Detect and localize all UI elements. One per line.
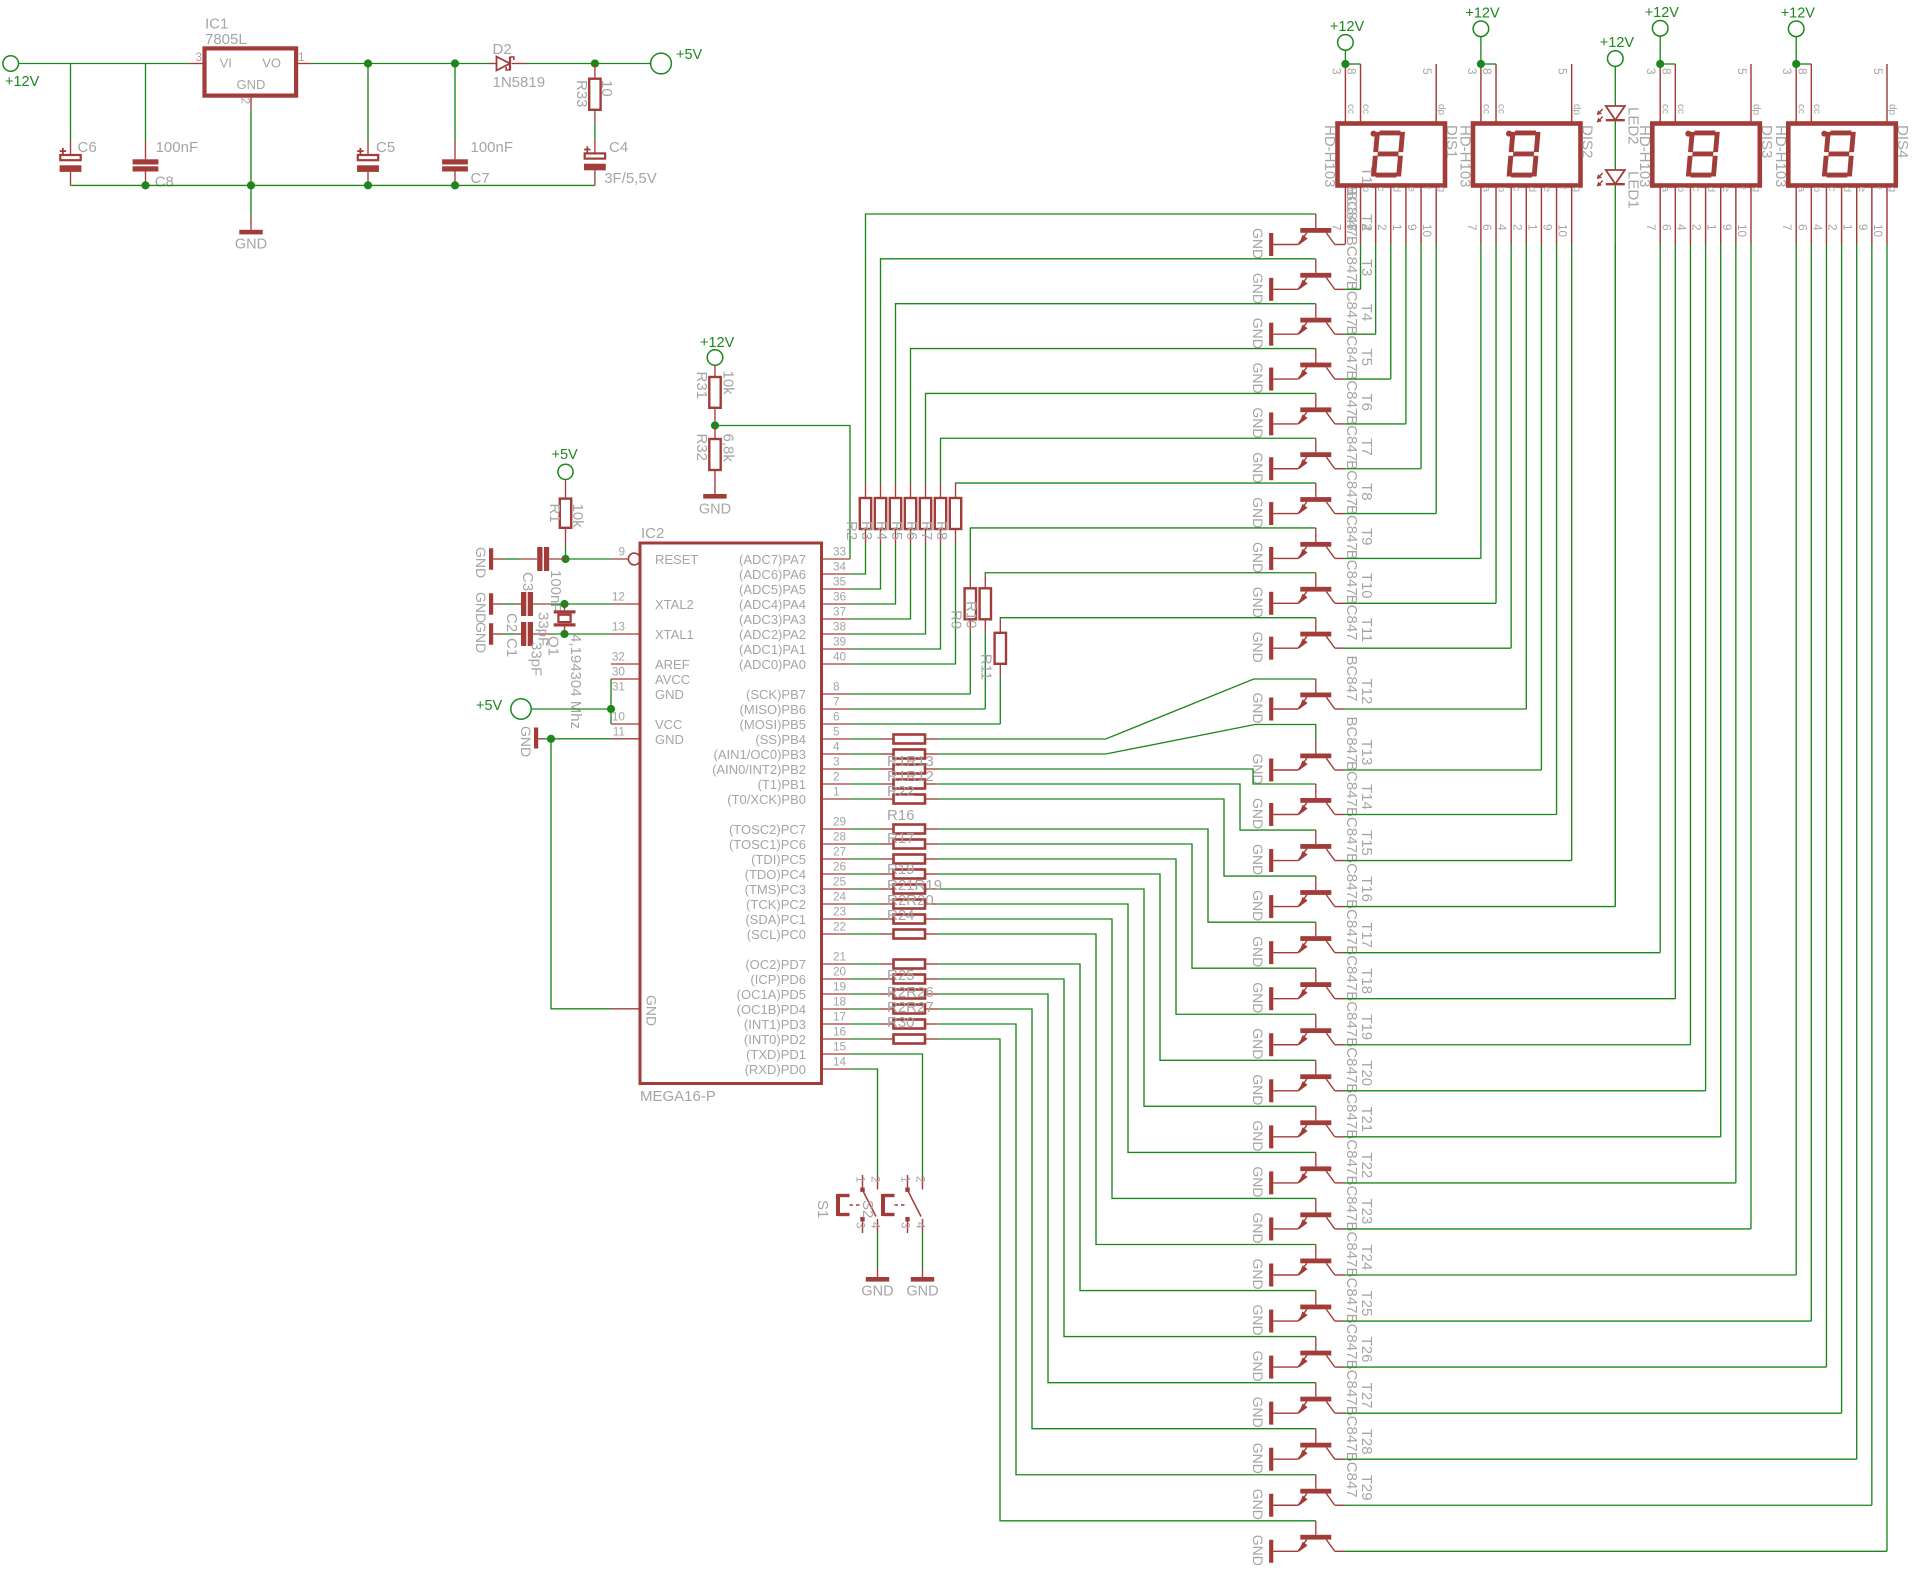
svg-text:1N5819: 1N5819 <box>493 74 546 91</box>
svg-text:GND: GND <box>906 1284 938 1300</box>
svg-text:T5: T5 <box>1358 349 1375 367</box>
svg-text:4: 4 <box>1495 224 1509 231</box>
svg-text:3: 3 <box>854 1222 868 1229</box>
svg-text:C6: C6 <box>78 139 97 156</box>
svg-text:cc: cc <box>1496 104 1507 114</box>
svg-text:(ADC7)PA7: (ADC7)PA7 <box>739 552 806 567</box>
svg-text:XTAL2: XTAL2 <box>655 597 694 612</box>
svg-text:40: 40 <box>833 650 847 664</box>
svg-text:6: 6 <box>1795 224 1809 231</box>
svg-text:7: 7 <box>1644 224 1658 231</box>
svg-text:(ADC2)PA2: (ADC2)PA2 <box>739 627 806 642</box>
svg-text:VI: VI <box>220 56 232 71</box>
svg-text:GND: GND <box>1250 1351 1266 1382</box>
svg-text:cc: cc <box>1360 104 1371 114</box>
svg-text:(OC1A)PD5: (OC1A)PD5 <box>737 987 806 1002</box>
svg-text:BC847: BC847 <box>1343 326 1360 372</box>
svg-text:2: 2 <box>1690 224 1704 231</box>
svg-text:f: f <box>1871 187 1882 190</box>
svg-text:33pF: 33pF <box>528 642 545 676</box>
svg-text:R5: R5 <box>888 521 905 540</box>
svg-text:(TDO)PC4: (TDO)PC4 <box>745 867 806 882</box>
svg-text:f: f <box>1421 187 1432 190</box>
svg-text:34: 34 <box>833 560 847 574</box>
svg-text:2: 2 <box>1826 224 1840 231</box>
svg-text:1: 1 <box>833 785 840 799</box>
svg-text:C5: C5 <box>376 139 395 156</box>
svg-text:(SCL)PC0: (SCL)PC0 <box>747 927 806 942</box>
svg-text:GND: GND <box>473 592 489 623</box>
svg-text:(RXD)PD0: (RXD)PD0 <box>745 1062 806 1077</box>
svg-text:IC1: IC1 <box>205 16 228 33</box>
svg-text:b: b <box>1496 187 1507 193</box>
svg-text:b: b <box>1360 187 1371 193</box>
svg-text:12: 12 <box>612 590 625 604</box>
svg-text:(ADC6)PA6: (ADC6)PA6 <box>739 567 806 582</box>
svg-text:28: 28 <box>833 830 847 844</box>
svg-text:T22: T22 <box>1358 1152 1375 1178</box>
svg-text:g: g <box>1750 187 1761 193</box>
svg-text:(ADC1)PA1: (ADC1)PA1 <box>739 642 806 657</box>
svg-text:22: 22 <box>833 920 846 934</box>
svg-text:11: 11 <box>613 725 625 739</box>
svg-text:BC847: BC847 <box>1343 761 1360 807</box>
svg-text:R4: R4 <box>873 521 890 540</box>
svg-text:7805L: 7805L <box>205 31 247 48</box>
svg-text:GND: GND <box>1250 693 1266 724</box>
svg-text:S2: S2 <box>859 1200 876 1218</box>
svg-text:BC847: BC847 <box>1343 717 1360 763</box>
svg-text:6: 6 <box>1345 224 1359 231</box>
svg-text:GND: GND <box>1250 798 1266 829</box>
svg-text:(TCK)PC2: (TCK)PC2 <box>746 897 806 912</box>
svg-text:VO: VO <box>262 56 281 71</box>
svg-text:GND: GND <box>1250 1074 1266 1105</box>
svg-text:2: 2 <box>914 1176 928 1183</box>
svg-text:(ADC5)PA5: (ADC5)PA5 <box>739 582 806 597</box>
svg-text:R32: R32 <box>693 434 710 462</box>
svg-text:(ADC0)PA0: (ADC0)PA0 <box>739 657 806 672</box>
svg-text:3: 3 <box>195 50 202 64</box>
svg-text:BC847: BC847 <box>1343 370 1360 416</box>
svg-text:(TMS)PC3: (TMS)PC3 <box>745 882 806 897</box>
svg-text:5: 5 <box>1735 68 1749 75</box>
svg-text:C1: C1 <box>503 638 520 657</box>
svg-text:100nF: 100nF <box>471 139 514 156</box>
svg-text:R16: R16 <box>887 807 915 824</box>
svg-text:T16: T16 <box>1358 876 1375 902</box>
svg-text:R8: R8 <box>933 521 950 540</box>
svg-text:g: g <box>1886 187 1897 193</box>
svg-text:16: 16 <box>833 1025 847 1039</box>
svg-text:GND: GND <box>1250 1305 1266 1336</box>
svg-text:T11: T11 <box>1358 618 1375 643</box>
svg-text:5: 5 <box>1556 68 1570 75</box>
svg-text:32: 32 <box>612 650 625 664</box>
svg-text:10: 10 <box>1420 224 1434 238</box>
svg-text:d: d <box>1841 187 1852 193</box>
svg-text:10: 10 <box>1871 224 1885 238</box>
svg-text:c: c <box>1690 187 1701 192</box>
svg-text:DIS4: DIS4 <box>1894 125 1911 158</box>
svg-text:+12V: +12V <box>1330 19 1365 35</box>
svg-text:GND: GND <box>1250 1443 1266 1474</box>
svg-text:GND: GND <box>1250 1397 1266 1428</box>
svg-text:(TOSC1)PC6: (TOSC1)PC6 <box>729 837 806 852</box>
svg-text:(MOSI)PB5: (MOSI)PB5 <box>740 717 806 732</box>
svg-text:2: 2 <box>1510 224 1524 231</box>
svg-text:T26: T26 <box>1358 1337 1375 1363</box>
svg-text:10k: 10k <box>569 504 586 529</box>
svg-text:R19: R19 <box>887 861 915 878</box>
svg-text:GND: GND <box>473 622 489 653</box>
svg-text:T28: T28 <box>1358 1429 1375 1455</box>
svg-text:T7: T7 <box>1358 438 1375 456</box>
svg-text:AREF: AREF <box>655 657 690 672</box>
svg-text:R24: R24 <box>887 907 915 924</box>
svg-text:3: 3 <box>1780 68 1794 75</box>
svg-text:(TOSC2)PC7: (TOSC2)PC7 <box>729 822 806 837</box>
svg-text:7: 7 <box>1329 224 1343 231</box>
svg-text:T25: T25 <box>1358 1291 1375 1317</box>
svg-text:R30: R30 <box>887 1014 915 1031</box>
svg-text:38: 38 <box>833 620 847 634</box>
svg-text:9: 9 <box>1720 224 1734 231</box>
svg-text:R6: R6 <box>903 521 920 540</box>
svg-text:18: 18 <box>833 995 847 1009</box>
svg-text:(AIN1/OC0)PB3: (AIN1/OC0)PB3 <box>714 747 806 762</box>
svg-text:5: 5 <box>1871 68 1885 75</box>
svg-text:c: c <box>1826 187 1837 192</box>
svg-text:25: 25 <box>833 875 847 889</box>
svg-text:T15: T15 <box>1358 830 1375 856</box>
svg-text:GND: GND <box>1250 1259 1266 1290</box>
svg-text:T21: T21 <box>1358 1106 1375 1132</box>
svg-text:(T1)PB1: (T1)PB1 <box>758 777 806 792</box>
svg-text:GND: GND <box>1250 452 1266 483</box>
svg-text:HD-H103: HD-H103 <box>1457 125 1474 188</box>
svg-text:g: g <box>1436 187 1447 193</box>
svg-text:T17: T17 <box>1358 922 1375 948</box>
svg-text:g: g <box>1571 187 1582 193</box>
svg-text:a: a <box>1480 187 1491 193</box>
svg-text:BC847: BC847 <box>1343 505 1360 551</box>
svg-text:T9: T9 <box>1358 528 1375 546</box>
svg-text:8: 8 <box>1480 68 1494 75</box>
svg-text:RESET: RESET <box>655 552 698 567</box>
svg-text:3: 3 <box>833 755 840 769</box>
svg-text:(TXD)PD1: (TXD)PD1 <box>746 1047 806 1062</box>
svg-text:DIS2: DIS2 <box>1579 125 1596 158</box>
svg-text:31: 31 <box>612 680 625 694</box>
svg-text:1: 1 <box>1841 224 1855 231</box>
svg-text:24: 24 <box>833 890 847 904</box>
svg-text:3F/5,5V: 3F/5,5V <box>604 170 657 187</box>
svg-text:R10: R10 <box>963 601 980 629</box>
svg-text:VCC: VCC <box>655 717 682 732</box>
svg-text:GND: GND <box>237 77 266 92</box>
svg-text:100nF: 100nF <box>156 139 199 156</box>
svg-text:15: 15 <box>833 1040 847 1054</box>
svg-text:(OC2)PD7: (OC2)PD7 <box>745 957 806 972</box>
svg-text:R17: R17 <box>887 830 915 847</box>
svg-text:26: 26 <box>833 860 847 874</box>
svg-text:+12V: +12V <box>5 74 40 90</box>
svg-text:4: 4 <box>914 1222 928 1229</box>
svg-text:(T0/XCK)PB0: (T0/XCK)PB0 <box>727 792 806 807</box>
svg-text:8: 8 <box>1795 68 1809 75</box>
svg-text:e: e <box>1720 187 1731 193</box>
svg-text:dp: dp <box>1571 104 1582 116</box>
svg-text:D2: D2 <box>493 41 512 58</box>
svg-text:T12: T12 <box>1358 679 1375 705</box>
svg-text:19: 19 <box>833 980 846 994</box>
svg-text:R31: R31 <box>693 372 710 400</box>
svg-text:C4: C4 <box>609 139 628 156</box>
svg-text:cc: cc <box>1345 104 1356 114</box>
svg-text:GND: GND <box>699 502 731 518</box>
svg-text:3: 3 <box>899 1222 913 1229</box>
svg-text:C3: C3 <box>519 572 536 591</box>
svg-text:HD-H103: HD-H103 <box>1321 125 1338 188</box>
svg-text:T18: T18 <box>1358 968 1375 994</box>
svg-text:C8: C8 <box>155 174 174 191</box>
svg-text:BC847: BC847 <box>1343 656 1360 702</box>
svg-text:GND: GND <box>1250 228 1266 259</box>
svg-text:9: 9 <box>1541 224 1555 231</box>
svg-text:39: 39 <box>833 635 846 649</box>
svg-text:R9: R9 <box>948 610 965 629</box>
svg-text:+12V: +12V <box>1645 5 1680 21</box>
svg-text:GND: GND <box>1250 542 1266 573</box>
svg-text:27: 27 <box>833 845 846 859</box>
svg-text:10: 10 <box>612 710 626 724</box>
svg-text:R33: R33 <box>573 80 590 108</box>
svg-text:C2: C2 <box>503 613 520 632</box>
svg-text:a: a <box>1660 187 1671 193</box>
svg-text:LED1: LED1 <box>1624 171 1641 209</box>
svg-text:GND: GND <box>235 236 267 252</box>
svg-text:GND: GND <box>861 1284 893 1300</box>
svg-text:7: 7 <box>1780 224 1794 231</box>
svg-text:BC847: BC847 <box>1343 281 1360 327</box>
svg-text:T20: T20 <box>1358 1060 1375 1086</box>
svg-text:(ICP)PD6: (ICP)PD6 <box>750 972 806 987</box>
svg-text:T19: T19 <box>1358 1014 1375 1040</box>
svg-text:cc: cc <box>1675 104 1686 114</box>
svg-text:f: f <box>1735 187 1746 190</box>
svg-text:HD-H103: HD-H103 <box>1772 125 1789 188</box>
svg-text:1: 1 <box>298 50 305 64</box>
svg-text:1: 1 <box>854 1176 868 1183</box>
svg-text:R2: R2 <box>843 521 860 540</box>
svg-text:R1: R1 <box>546 504 563 523</box>
svg-text:8: 8 <box>1659 68 1673 75</box>
svg-text:d: d <box>1526 187 1537 193</box>
svg-text:d: d <box>1390 187 1401 193</box>
svg-text:GND: GND <box>655 687 684 702</box>
svg-text:cc: cc <box>1480 104 1491 114</box>
svg-text:4: 4 <box>1810 224 1824 231</box>
svg-text:GND: GND <box>1250 1489 1266 1520</box>
svg-text:cc: cc <box>1811 104 1822 114</box>
svg-text:29: 29 <box>833 815 846 829</box>
svg-text:5: 5 <box>833 725 840 739</box>
svg-text:b: b <box>1811 187 1822 193</box>
svg-text:+12V: +12V <box>700 335 735 351</box>
svg-text:GND: GND <box>1250 1120 1266 1151</box>
svg-text:GND: GND <box>1250 1028 1266 1059</box>
svg-text:BC847: BC847 <box>1343 595 1360 641</box>
svg-text:1: 1 <box>899 1176 913 1183</box>
svg-text:3: 3 <box>1465 68 1479 75</box>
svg-text:R22: R22 <box>887 783 915 800</box>
svg-text:17: 17 <box>833 1010 846 1024</box>
svg-text:6: 6 <box>1480 224 1494 231</box>
svg-text:GND: GND <box>1250 363 1266 394</box>
svg-text:(INT1)PD3: (INT1)PD3 <box>744 1017 806 1032</box>
svg-text:R7: R7 <box>918 521 935 540</box>
svg-text:4,194304 Mhz: 4,194304 Mhz <box>567 634 584 729</box>
svg-text:9: 9 <box>618 545 625 559</box>
svg-text:T14: T14 <box>1358 784 1375 810</box>
svg-text:f: f <box>1556 187 1567 190</box>
svg-text:GND: GND <box>1250 936 1266 967</box>
svg-text:(ADC3)PA3: (ADC3)PA3 <box>739 612 806 627</box>
svg-text:(ADC4)PA4: (ADC4)PA4 <box>739 597 806 612</box>
svg-text:(SDA)PC1: (SDA)PC1 <box>745 912 806 927</box>
svg-text:2: 2 <box>1375 224 1389 231</box>
svg-text:(SCK)PB7: (SCK)PB7 <box>746 687 806 702</box>
svg-text:6,8k: 6,8k <box>720 434 737 463</box>
svg-text:+5V: +5V <box>552 447 579 463</box>
svg-text:2: 2 <box>833 770 840 784</box>
svg-text:7: 7 <box>833 695 840 709</box>
svg-text:10: 10 <box>1556 224 1570 238</box>
svg-text:4: 4 <box>1674 224 1688 231</box>
svg-text:c: c <box>1511 187 1522 192</box>
svg-text:T23: T23 <box>1358 1198 1375 1224</box>
svg-text:2: 2 <box>869 1176 883 1183</box>
svg-text:10: 10 <box>598 80 615 97</box>
svg-text:T29: T29 <box>1358 1475 1375 1501</box>
svg-text:(SS)PB4: (SS)PB4 <box>755 732 806 747</box>
svg-text:dp: dp <box>1436 104 1447 116</box>
svg-text:XTAL1: XTAL1 <box>655 627 694 642</box>
svg-text:T4: T4 <box>1358 304 1375 322</box>
svg-text:Q1: Q1 <box>545 636 562 656</box>
svg-text:GND: GND <box>518 726 534 757</box>
svg-text:1: 1 <box>1525 224 1539 231</box>
svg-text:GND: GND <box>473 547 489 578</box>
svg-text:T24: T24 <box>1358 1245 1375 1271</box>
svg-text:a: a <box>1796 187 1807 193</box>
svg-text:4: 4 <box>833 740 840 754</box>
svg-text:(TDI)PC5: (TDI)PC5 <box>751 852 806 867</box>
svg-text:T27: T27 <box>1358 1383 1375 1409</box>
svg-text:(INT0)PD2: (INT0)PD2 <box>744 1032 806 1047</box>
svg-text:8: 8 <box>1345 68 1359 75</box>
svg-text:+12V: +12V <box>1465 5 1500 21</box>
svg-text:GND: GND <box>1250 273 1266 304</box>
svg-text:6: 6 <box>833 710 840 724</box>
svg-text:AVCC: AVCC <box>655 672 690 687</box>
svg-text:R3: R3 <box>858 521 875 540</box>
svg-text:GND: GND <box>1250 497 1266 528</box>
svg-text:10k: 10k <box>720 371 737 396</box>
svg-text:30: 30 <box>612 665 626 679</box>
svg-text:14: 14 <box>833 1055 847 1069</box>
svg-text:BC847: BC847 <box>1343 460 1360 506</box>
svg-text:13: 13 <box>612 620 626 634</box>
svg-text:4: 4 <box>1360 224 1374 231</box>
svg-text:+12V: +12V <box>1600 35 1635 51</box>
svg-text:9: 9 <box>1405 224 1419 231</box>
svg-text:GND: GND <box>1250 1166 1266 1197</box>
svg-text:e: e <box>1856 187 1867 193</box>
svg-text:GND: GND <box>655 732 684 747</box>
svg-text:LED2: LED2 <box>1624 107 1641 145</box>
svg-text:33: 33 <box>833 545 847 559</box>
svg-text:GND: GND <box>1250 407 1266 438</box>
svg-text:(AIN0/INT2)PB2: (AIN0/INT2)PB2 <box>712 762 806 777</box>
svg-text:MEGA16-P: MEGA16-P <box>640 1088 716 1105</box>
svg-text:4: 4 <box>869 1222 883 1229</box>
svg-text:dp: dp <box>1750 104 1761 116</box>
svg-text:36: 36 <box>833 590 847 604</box>
svg-text:20: 20 <box>833 965 847 979</box>
svg-text:GND: GND <box>1250 844 1266 875</box>
svg-text:23: 23 <box>833 905 847 919</box>
svg-text:6: 6 <box>1659 224 1673 231</box>
svg-text:cc: cc <box>1660 104 1671 114</box>
svg-text:a: a <box>1345 187 1356 193</box>
svg-text:5: 5 <box>1420 68 1434 75</box>
svg-text:T8: T8 <box>1358 483 1375 501</box>
svg-text:cc: cc <box>1796 104 1807 114</box>
svg-text:7: 7 <box>1465 224 1479 231</box>
svg-text:C7: C7 <box>471 170 490 187</box>
svg-text:3: 3 <box>1644 68 1658 75</box>
svg-text:21: 21 <box>833 950 846 964</box>
svg-text:+12V: +12V <box>1781 5 1816 21</box>
svg-text:35: 35 <box>833 575 847 589</box>
svg-text:1: 1 <box>1390 224 1404 231</box>
svg-text:GND: GND <box>1250 318 1266 349</box>
svg-text:GND: GND <box>644 995 660 1026</box>
svg-text:e: e <box>1541 187 1552 193</box>
svg-text:8: 8 <box>833 680 840 694</box>
svg-text:R11: R11 <box>978 654 995 680</box>
svg-text:GND: GND <box>1250 632 1266 663</box>
svg-text:GND: GND <box>1250 982 1266 1013</box>
svg-text:37: 37 <box>833 605 846 619</box>
svg-text:(OC1B)PD4: (OC1B)PD4 <box>737 1002 806 1017</box>
svg-text:d: d <box>1705 187 1716 193</box>
svg-text:S1: S1 <box>814 1200 831 1218</box>
svg-text:GND: GND <box>1250 890 1266 921</box>
svg-text:b: b <box>1675 187 1686 193</box>
svg-text:c: c <box>1375 187 1386 192</box>
svg-text:1: 1 <box>1705 224 1719 231</box>
svg-text:9: 9 <box>1856 224 1870 231</box>
svg-text:GND: GND <box>1250 1535 1266 1566</box>
svg-text:GND: GND <box>1250 587 1266 618</box>
svg-text:e: e <box>1405 187 1416 193</box>
svg-text:BC847: BC847 <box>1343 550 1360 596</box>
svg-text:+5V: +5V <box>676 47 703 63</box>
svg-text:10: 10 <box>1735 224 1749 238</box>
